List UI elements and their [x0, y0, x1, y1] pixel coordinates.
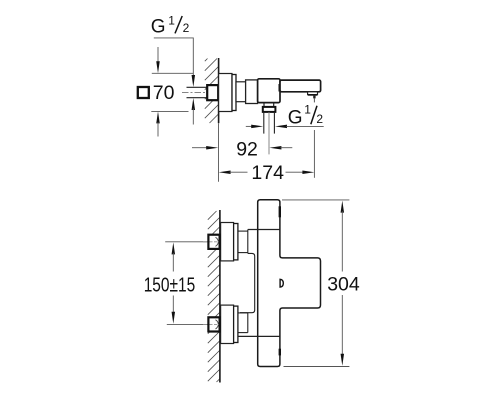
svg-text:1: 1	[304, 103, 311, 117]
thermostat block (top view)	[258, 79, 280, 103]
wall hatching (front view)	[208, 211, 220, 382]
square escutcheon (top view)	[219, 74, 232, 112]
union nut at wall (top view)	[207, 85, 218, 100]
leader line from G 1/2 label	[154, 38, 194, 77]
dimension 174	[219, 170, 231, 174]
extension line at spout tip / aerator	[313, 130, 315, 178]
dim 70 upper arrow	[157, 47, 159, 63]
hose outlet centerline / extension for dim 92	[268, 112, 270, 154]
connection neck (top view)	[236, 82, 246, 102]
upper connection pipe	[238, 230, 248, 232]
centerline lower connection	[203, 323, 220, 325]
thermostat body with center block (front view)	[258, 200, 321, 367]
svg-text:70: 70	[153, 82, 175, 104]
extension line lower connection	[167, 323, 209, 325]
supply pipe centerline	[182, 92, 219, 94]
hose outlet collar	[263, 102, 265, 107]
wall hatching (top view)	[205, 59, 219, 124]
svg-text:G: G	[288, 108, 303, 129]
svg-text:2: 2	[183, 21, 190, 35]
square-70 symbol	[138, 87, 149, 98]
wall face line (top view)	[218, 58, 220, 123]
dimension 92	[192, 147, 207, 149]
wall face extension line down to dimension 174	[218, 123, 220, 182]
bath spout (top view)	[280, 80, 321, 92]
upper union nut	[208, 235, 219, 249]
body mid section (top view)	[246, 80, 258, 104]
svg-text:174: 174	[251, 162, 284, 184]
upper mark on body edge	[279, 206, 281, 217]
check-valve housing between connections	[240, 253, 255, 312]
upper escutcheon	[221, 223, 234, 261]
leader from aerator to G 1/2 label	[313, 96, 315, 99]
extension line escutcheon bottom	[151, 110, 188, 112]
svg-text:G: G	[151, 16, 166, 37]
G 1/2 diameter arrows for hose thread	[246, 125, 252, 127]
mark on block right edge	[279, 84, 281, 92]
dimension 150±15	[172, 242, 176, 254]
dimension 304	[282, 199, 349, 201]
lower joint line across body	[239, 335, 280, 337]
lower union nut	[208, 317, 219, 331]
opposing arrow under pipe	[192, 98, 196, 110]
svg-text:150±15: 150±15	[144, 274, 196, 296]
extension line upper connection	[165, 241, 208, 243]
svg-text:92: 92	[236, 139, 258, 161]
svg-text:2: 2	[316, 112, 323, 126]
svg-text:304: 304	[327, 274, 360, 296]
hose outlet nut	[263, 107, 276, 112]
lower connection pipe	[238, 312, 248, 314]
supply pipe in wall	[187, 86, 208, 88]
upper joint line across body	[248, 229, 280, 231]
extension line escutcheon top	[152, 72, 194, 74]
svg-text:1: 1	[168, 14, 175, 28]
lower escutcheon	[221, 305, 234, 343]
button mark on center block	[280, 279, 283, 287]
aerator nub under spout	[308, 92, 318, 95]
centerline upper connection	[203, 241, 220, 243]
lower mark on body edge	[279, 349, 281, 356]
hose outlet pipe	[263, 112, 265, 134]
dim 70 lower arrow	[156, 111, 160, 123]
wall face line (front view)	[219, 210, 221, 383]
